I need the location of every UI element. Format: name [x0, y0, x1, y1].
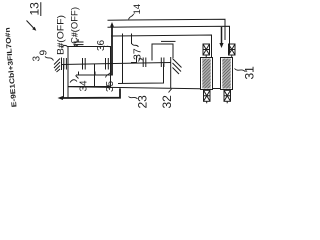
svg-text:B#(OFF): B#(OFF): [55, 15, 65, 55]
svg-text:3: 3: [32, 56, 43, 62]
wire: long vertical leg: [122, 34, 124, 84]
label 23 (bottom bus): [136, 95, 150, 109]
svg-text:23: 23: [136, 95, 150, 109]
leader squiggle from label 37: [132, 44, 139, 47]
label 14 (bus pair): [132, 4, 143, 15]
svg-text:C#(OFF): C#(OFF): [70, 7, 80, 44]
capacitor C2 (ref 34): [83, 58, 86, 70]
transistor arc detail: [139, 59, 143, 62]
figure number 13 (rotated, underlined): [28, 2, 42, 16]
leader squiggle from label 39: [45, 57, 54, 61]
label 34 (capacitor): [79, 80, 90, 92]
wire: box A left edge extension down: [67, 87, 69, 98]
capacitor plate over box C: [161, 40, 176, 42]
svg-text:31: 31: [243, 66, 257, 80]
svg-text:37: 37: [132, 48, 144, 60]
winding coil box top-left: [203, 44, 210, 58]
leader squiggle from label 31: [235, 69, 246, 72]
caption (vertical): torque flow in motor E1: [5, 27, 19, 107]
bold current-flow wire with up arrow: [110, 22, 114, 76]
leader squiggle from label 35: [106, 72, 112, 78]
ground left plate: [61, 58, 63, 71]
svg-text:9: 9: [39, 50, 50, 56]
capacitor at phase-C input (horizontal plates): [74, 39, 84, 44]
motor stator pole right: [221, 58, 233, 90]
svg-text:32: 32: [160, 95, 174, 109]
wire: upper supply bus with corner down to motor: [108, 19, 226, 40]
leader squiggle from label 36: [104, 46, 110, 47]
wire: snubber rail: [62, 63, 171, 65]
svg-text:35: 35: [105, 80, 116, 92]
wire: bottom return bus (ref 23): [68, 87, 201, 89]
motor stator pole left (ref 31): [201, 58, 213, 90]
svg-text:34: 34: [79, 80, 90, 92]
leader tick from label 32: [169, 89, 172, 93]
label phase-B (OFF): [55, 15, 65, 55]
inverter module box B outline: [118, 64, 164, 84]
label 39 (ground): [32, 50, 50, 62]
bold current-return wire with left arrow: [58, 88, 121, 100]
transistor arc in box A: [70, 80, 77, 83]
wire: second supply bus with corner down to motor: [108, 26, 230, 53]
leader squiggle from phase-C label: [74, 44, 78, 46]
component box C: [152, 44, 173, 61]
svg-text:13: 13: [28, 2, 42, 16]
leader arrow from label 13: [27, 21, 37, 31]
capacitor C4: [143, 58, 146, 68]
label 36: [96, 39, 107, 51]
ground right plate / wire down to bus: [170, 57, 172, 89]
ground left hatches: [54, 59, 60, 73]
ground right hatches: [173, 59, 182, 75]
wire: inner rail of box A: [76, 72, 112, 76]
wire: bus segment between motor poles: [213, 88, 221, 90]
winding coil box top-right: [229, 44, 236, 58]
svg-text:14: 14: [132, 4, 143, 15]
svg-text:36: 36: [96, 39, 107, 51]
wire: vertical at left of return path: [63, 64, 65, 97]
wire: short vertical leg (ref 37): [131, 34, 133, 45]
wire: third bus with corner down to motor: [111, 35, 212, 58]
inverter module box A: [68, 47, 111, 87]
leader tick from label 34: [76, 76, 79, 79]
winding coil box bottom-left: [204, 90, 211, 104]
capacitor C5: [161, 58, 164, 68]
label 32: [160, 95, 174, 109]
winding coil box bottom-right: [224, 90, 231, 104]
label 31 (motor): [243, 66, 257, 80]
label 37: [132, 48, 144, 60]
leader squiggle from label 14: [129, 14, 134, 19]
capacitor C1: [64, 58, 67, 70]
current flow arrow down into motor: [219, 27, 223, 48]
label phase-C (OFF): [70, 7, 80, 44]
wire: corner stub on snubber rail: [131, 56, 137, 63]
leader squiggle from label 23: [129, 97, 138, 99]
leader squiggle from phase-B label: [62, 45, 68, 47]
label 35 (capacitor): [105, 80, 116, 92]
capacitor C3 (ref 35): [106, 58, 109, 70]
wire: inner vertical of box A: [94, 64, 96, 87]
